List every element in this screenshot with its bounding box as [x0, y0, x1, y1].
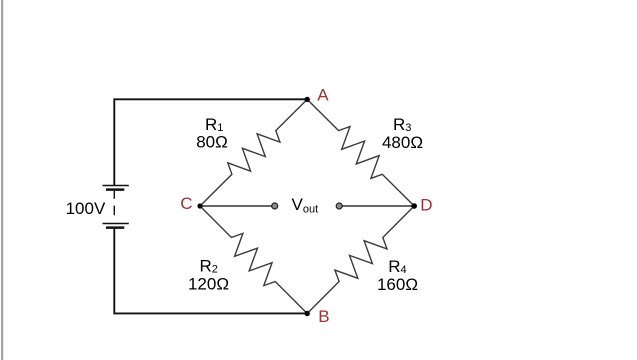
svg-text:100V: 100V — [66, 199, 106, 218]
svg-text:A: A — [317, 85, 329, 104]
svg-text:480Ω: 480Ω — [382, 133, 423, 152]
Vout left terminal — [272, 203, 278, 209]
svg-text:C: C — [180, 194, 192, 213]
resistor R3 value label — [382, 115, 423, 152]
resistor R1 — [200, 99, 307, 206]
node D — [411, 203, 417, 209]
resistor R3 — [307, 99, 414, 206]
resistor R1 value label — [196, 115, 228, 152]
svg-text:D: D — [420, 196, 432, 215]
node B — [305, 311, 310, 316]
svg-text:B: B — [318, 307, 329, 326]
svg-text:120Ω: 120Ω — [188, 275, 229, 294]
node C — [197, 203, 202, 208]
wire Vout right terminal to D — [339, 205, 414, 207]
resistor R2 value label — [188, 257, 229, 294]
battery 100V — [103, 186, 129, 228]
svg-text:80Ω: 80Ω — [196, 133, 228, 152]
node A — [305, 97, 310, 102]
resistor R4 — [307, 206, 414, 314]
wire top (battery + to node A) — [114, 99, 307, 185]
resistor R2 — [200, 206, 307, 314]
resistor R4 value label — [377, 257, 418, 294]
wire bottom (battery - to node B) — [114, 228, 307, 314]
Vout right terminal — [336, 203, 342, 209]
svg-text:160Ω: 160Ω — [377, 275, 418, 294]
wire C to Vout left terminal — [200, 205, 275, 207]
